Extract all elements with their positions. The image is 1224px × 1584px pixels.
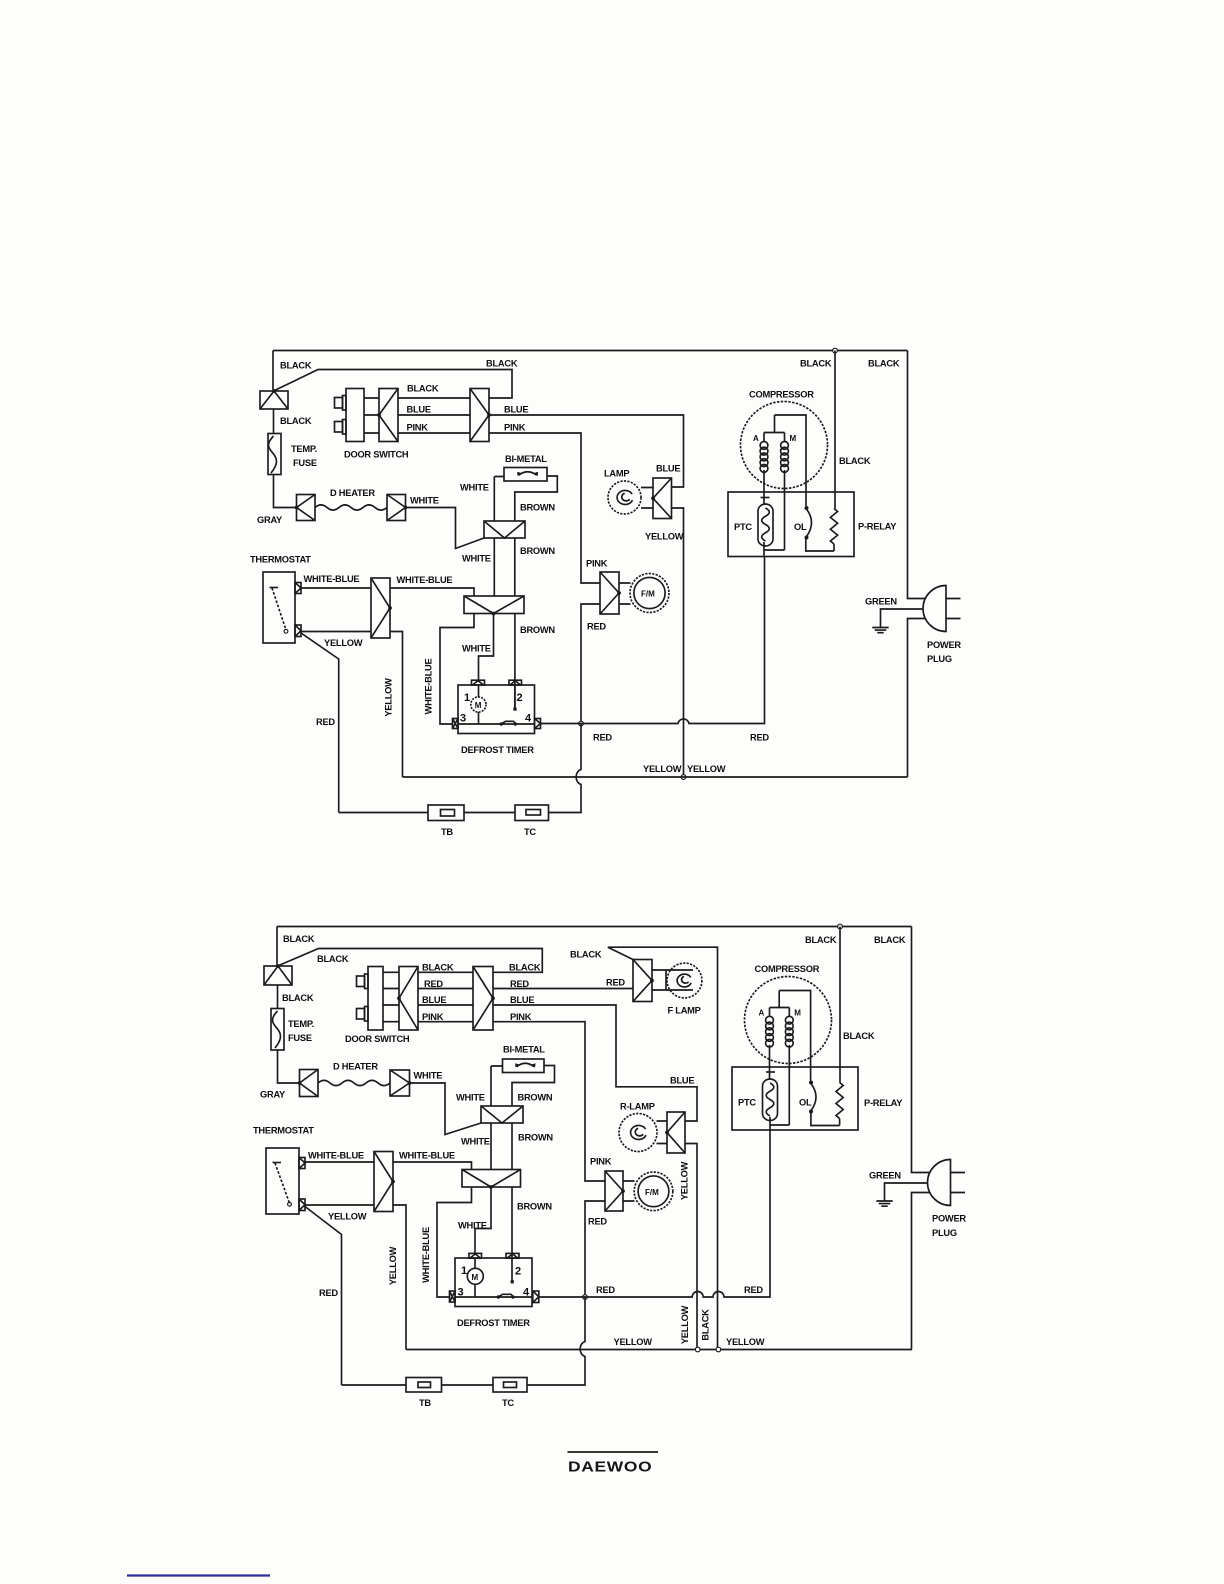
connector thermostat: [371, 578, 390, 638]
compressor C1: [741, 402, 828, 489]
svg-text:RED: RED: [319, 1288, 338, 1298]
wire BROWN bimetal right b: [512, 1066, 555, 1107]
wire BLACK loop above door switch b: [278, 949, 543, 973]
svg-text:BLUE: BLUE: [504, 405, 528, 415]
compressor M coil b: [785, 1016, 793, 1024]
svg-text:TEMP.: TEMP.: [291, 444, 317, 454]
svg-text:2: 2: [515, 1266, 521, 1278]
svg-text:PINK: PINK: [586, 559, 608, 569]
svg-text:BROWN: BROWN: [518, 1093, 553, 1103]
svg-text:THERMOSTAT: THERMOSTAT: [250, 555, 311, 565]
svg-text:RED: RED: [316, 717, 335, 727]
wire WHITE leg to pin1: [479, 614, 494, 681]
svg-text:FUSE: FUSE: [293, 458, 317, 468]
svg-text:BLACK: BLACK: [509, 963, 541, 973]
wire YELLOW thermostat: [301, 631, 371, 633]
wire WHITE-BLUE to wide2 b: [393, 1162, 472, 1170]
svg-text:BLACK: BLACK: [282, 993, 314, 1003]
svg-text:M: M: [475, 701, 482, 710]
door switch body b: [368, 967, 383, 1031]
svg-text:A: A: [753, 434, 759, 443]
door switch plunger upper b: [357, 976, 365, 987]
svg-text:WHITE-BLUE: WHITE-BLUE: [399, 1151, 455, 1161]
wire left rail b: [276, 927, 278, 967]
door switch plunger upper: [335, 398, 343, 409]
wire right rail upper b: [912, 927, 930, 1173]
blue footer line: [127, 1574, 270, 1576]
svg-text:BLACK: BLACK: [422, 963, 454, 973]
wire YELLOW row: [403, 776, 908, 778]
wire RED diagonal to TB rail: [301, 633, 339, 813]
wire RED from fm to junction: [581, 604, 600, 724]
wires wide1 to wide2 b: [491, 1123, 512, 1170]
connector door-switch right: [470, 389, 489, 442]
wire YELLOW to rail: [390, 632, 403, 778]
svg-text:BLUE: BLUE: [510, 995, 534, 1005]
PTC terminal tick b: [766, 1071, 775, 1073]
svg-text:TB: TB: [441, 827, 453, 837]
svg-text:WHITE: WHITE: [462, 644, 491, 654]
node YELLOW junction: [681, 775, 686, 780]
OL overload b: [809, 1081, 813, 1085]
svg-text:OL: OL: [799, 1098, 812, 1108]
wire A coil to PTC b: [769, 1045, 771, 1079]
wire PINK to fm connector: [489, 433, 600, 583]
node junction top rail: [833, 348, 838, 353]
PTC terminal tick: [761, 497, 770, 499]
svg-text:YELLOW: YELLOW: [687, 764, 726, 774]
svg-text:R-LAMP: R-LAMP: [620, 1102, 655, 1112]
wires wide1 to wide2: [494, 538, 515, 596]
power plug P1 b: [928, 1160, 951, 1206]
wide connector 1: [484, 521, 525, 538]
svg-text:F LAMP: F LAMP: [668, 1006, 701, 1016]
daewoo logo rule: [568, 1451, 659, 1453]
svg-text:P-RELAY: P-RELAY: [858, 522, 897, 532]
connector lamp: [653, 478, 672, 519]
compressor C1 b: [745, 977, 832, 1064]
connector d-heater right b: [390, 1070, 410, 1096]
svg-text:YELLOW: YELLOW: [645, 532, 684, 542]
d-heater element: [315, 505, 387, 510]
wire right rail upper: [908, 351, 926, 599]
svg-text:BROWN: BROWN: [517, 1202, 552, 1212]
node junction top rail b: [838, 924, 843, 929]
wire GREEN b: [885, 1183, 928, 1201]
wire BROWN leg to pin2 b: [511, 1187, 513, 1282]
ground symbol b: [876, 1201, 892, 1206]
svg-text:BLUE: BLUE: [656, 464, 680, 474]
wire fm stubs: [619, 583, 631, 604]
connector fuse-top: [260, 391, 288, 409]
wire fuse bottom b: [278, 1050, 300, 1083]
wire top rail BLACK: [273, 350, 908, 352]
svg-text:RED: RED: [750, 733, 769, 743]
svg-text:DOOR SWITCH: DOOR SWITCH: [345, 1034, 410, 1044]
wire YELLOW lamp down: [672, 508, 684, 777]
svg-text:RED: RED: [606, 978, 625, 988]
d-heater element b: [318, 1080, 390, 1085]
connector thermostat b: [374, 1152, 393, 1212]
svg-text:BROWN: BROWN: [520, 503, 555, 513]
svg-text:BLUE: BLUE: [422, 995, 446, 1005]
pin1 terminal b: [469, 1253, 482, 1258]
svg-text:COMPRESSOR: COMPRESSOR: [749, 390, 814, 400]
connector d-heater left b: [300, 1070, 319, 1097]
svg-text:WHITE-BLUE: WHITE-BLUE: [397, 575, 453, 585]
svg-text:PINK: PINK: [422, 1012, 444, 1022]
svg-text:3: 3: [460, 713, 466, 725]
pin3 terminal b: [450, 1291, 456, 1302]
node YELLOW junction 2 b: [716, 1347, 721, 1352]
svg-text:YELLOW: YELLOW: [328, 1212, 367, 1222]
wire WHITE-BLUE thermostat b: [305, 1161, 374, 1163]
svg-text:BI-METAL: BI-METAL: [505, 454, 547, 464]
wide connector 2: [464, 596, 524, 614]
wire left rail to fuse connector: [272, 351, 274, 392]
svg-text:M: M: [472, 1273, 479, 1282]
svg-text:TB: TB: [419, 1398, 431, 1408]
compressor internal bracket: [764, 415, 806, 506]
svg-text:BLACK: BLACK: [843, 1031, 875, 1041]
thermostat terminal lower: [295, 625, 301, 637]
P-relay coil b: [836, 1083, 843, 1119]
wire YELLOW to rail b: [393, 1205, 406, 1350]
pin2 internal lead b: [511, 1280, 514, 1283]
compressor A coil: [760, 442, 768, 450]
pin2 internal lead: [514, 685, 516, 709]
wire right rail lower b: [912, 1193, 930, 1350]
svg-text:COMPRESSOR: COMPRESSOR: [755, 964, 820, 974]
svg-text:WHITE-BLUE: WHITE-BLUE: [424, 659, 434, 715]
wire WHITE leg to pin1 b: [475, 1187, 491, 1254]
power plug P1: [923, 586, 946, 632]
svg-text:4: 4: [525, 713, 532, 725]
wire right rail lower: [908, 619, 926, 778]
wire PINK to fm b: [493, 1022, 605, 1181]
svg-text:YELLOW: YELLOW: [388, 1246, 398, 1285]
wire WHITE bimetal left: [494, 477, 504, 522]
wire fuse top lead b: [277, 985, 279, 1009]
wire YELLOW row b: [406, 1349, 912, 1351]
svg-text:POWER: POWER: [927, 640, 961, 650]
svg-text:GREEN: GREEN: [869, 1171, 901, 1181]
svg-text:RED: RED: [596, 1285, 615, 1295]
P-relay coil: [830, 509, 837, 545]
wire BROWN bimetal right: [515, 476, 558, 521]
relay box b: [732, 1067, 858, 1130]
wires f-lamp stubs: [652, 970, 666, 990]
svg-text:PLUG: PLUG: [932, 1228, 957, 1238]
fan motor FM b: [634, 1172, 673, 1211]
svg-text:PINK: PINK: [504, 423, 526, 433]
thermostat TH1 b: [266, 1148, 299, 1214]
svg-text:1: 1: [461, 1265, 467, 1277]
connector fm: [600, 572, 619, 614]
timer motor M b: [467, 1268, 483, 1284]
wires r-lamp stubs: [657, 1121, 668, 1144]
svg-text:TC: TC: [524, 827, 536, 837]
svg-text:WHITE-BLUE: WHITE-BLUE: [421, 1227, 431, 1283]
svg-text:LAMP: LAMP: [604, 469, 629, 479]
wire fm stubs b: [623, 1181, 635, 1201]
svg-text:BROWN: BROWN: [520, 546, 555, 556]
svg-text:1: 1: [464, 692, 470, 704]
connector door-switch left b: [399, 967, 418, 1031]
svg-text:P-RELAY: P-RELAY: [864, 1098, 903, 1108]
svg-text:M: M: [790, 434, 797, 443]
wires door body to connector b: [383, 972, 399, 1021]
wire top rail BLACK b: [277, 926, 912, 928]
svg-text:GRAY: GRAY: [257, 515, 283, 525]
svg-text:THERMOSTAT: THERMOSTAT: [253, 1126, 314, 1136]
svg-text:WHITE: WHITE: [456, 1093, 485, 1103]
svg-text:YELLOW: YELLOW: [614, 1337, 653, 1347]
svg-text:BROWN: BROWN: [518, 1133, 553, 1143]
svg-text:BLACK: BLACK: [805, 935, 837, 945]
svg-text:RED: RED: [587, 622, 606, 632]
thermostat terminal lower b: [299, 1199, 305, 1211]
node RED junction: [579, 721, 584, 726]
pin3 terminal: [453, 719, 459, 729]
door switch body: [346, 389, 364, 442]
PTC element: [758, 504, 773, 546]
svg-text:A: A: [759, 1009, 765, 1018]
temp fuse F1: [268, 434, 281, 475]
svg-text:BLACK: BLACK: [874, 935, 906, 945]
svg-text:YELLOW: YELLOW: [680, 1161, 690, 1200]
svg-text:BLACK: BLACK: [317, 954, 349, 964]
wire YELLOW thermostat b: [305, 1204, 374, 1206]
thermostat TH1: [263, 572, 295, 643]
wire BROWN leg to pin2: [514, 614, 516, 710]
svg-text:RED: RED: [424, 979, 443, 989]
wires BLACK BLUE PINK between connectors: [398, 398, 470, 433]
svg-text:D HEATER: D HEATER: [333, 1062, 378, 1072]
svg-text:YELLOW: YELLOW: [680, 1305, 690, 1344]
svg-text:TC: TC: [502, 1398, 514, 1408]
svg-text:F/M: F/M: [641, 590, 655, 599]
wire BLACK relay feed b: [839, 927, 841, 1083]
wire BLACK diagonal to door switch: [274, 370, 513, 399]
svg-text:WHITE: WHITE: [458, 1221, 487, 1231]
connector d-heater left: [297, 495, 316, 521]
svg-text:WHITE: WHITE: [461, 1137, 490, 1147]
bi-metal B1 b: [503, 1059, 545, 1073]
svg-text:WHITE-BLUE: WHITE-BLUE: [304, 574, 360, 584]
lamp L1: [608, 481, 641, 514]
temp fuse F1 b: [271, 1009, 284, 1051]
timer internal contact line b: [455, 1296, 532, 1298]
wire BLUE to lamp connector: [489, 415, 684, 487]
node RED junction b: [583, 1295, 588, 1300]
pin2 terminal b: [506, 1253, 519, 1258]
wire GREEN: [881, 609, 924, 627]
svg-text:PLUG: PLUG: [927, 654, 952, 664]
wire BLACK relay feed: [834, 351, 836, 509]
wide connector 2 b: [462, 1170, 521, 1188]
wires BLACK RED BLUE PINK b: [418, 972, 473, 1021]
svg-text:YELLOW: YELLOW: [643, 764, 682, 774]
wire M coil down b: [788, 1045, 790, 1125]
timer internal contact line: [458, 723, 535, 725]
wire WHITE-BLUE thermostat: [301, 587, 371, 589]
svg-text:D HEATER: D HEATER: [330, 488, 375, 498]
defrost timer DT1 b: [455, 1258, 532, 1307]
svg-text:DAEWOO: DAEWOO: [568, 1459, 652, 1476]
wire A coil to PTC: [763, 470, 765, 504]
svg-text:PTC: PTC: [734, 522, 752, 532]
terminal TC b: [493, 1378, 527, 1393]
door switch plunger lower: [335, 422, 343, 433]
svg-text:BLACK: BLACK: [283, 934, 315, 944]
svg-text:BLUE: BLUE: [670, 1076, 694, 1086]
wire YELLOW r-lamp down: [685, 1144, 697, 1350]
svg-text:BLACK: BLACK: [800, 359, 832, 369]
wire RED diagonal to TB rail b: [305, 1207, 342, 1386]
wire fuse top lead: [273, 409, 275, 434]
svg-text:PINK: PINK: [407, 423, 429, 433]
connector door-switch left: [379, 389, 398, 442]
compressor M coil: [781, 442, 789, 450]
svg-text:PINK: PINK: [510, 1012, 532, 1022]
compressor internal bracket b: [770, 991, 811, 1081]
svg-text:DEFROST TIMER: DEFROST TIMER: [461, 745, 534, 755]
wire TB TC row: [339, 812, 515, 814]
f-lamp L2: [666, 970, 693, 990]
wire RED vertical hop to TB row b: [527, 1297, 585, 1385]
connector fuse-top b: [264, 966, 292, 985]
compressor A coil b: [766, 1016, 774, 1024]
connector door-switch right b: [473, 967, 493, 1031]
svg-text:WHITE: WHITE: [460, 483, 489, 493]
r-lamp L3: [619, 1114, 657, 1152]
svg-text:BLACK: BLACK: [570, 950, 602, 960]
bi-metal B1: [504, 468, 547, 482]
svg-text:BI-METAL: BI-METAL: [503, 1045, 545, 1055]
svg-text:PTC: PTC: [738, 1098, 756, 1108]
door switch plunger lower b: [357, 1009, 365, 1020]
svg-text:BLACK: BLACK: [407, 384, 439, 394]
wire WHITE-BLUE leg to pin3: [440, 614, 474, 725]
svg-text:RED: RED: [588, 1217, 607, 1227]
wire BLUE to r-lamp: [493, 1005, 697, 1121]
wire WHITE to wide connector b: [410, 1083, 482, 1135]
pin4 terminal b: [533, 1291, 539, 1303]
svg-text:M: M: [794, 1009, 801, 1018]
svg-text:BLACK: BLACK: [280, 416, 312, 426]
svg-text:F/M: F/M: [645, 1188, 659, 1197]
wire M coil down: [784, 470, 786, 550]
svg-text:WHITE: WHITE: [414, 1071, 443, 1081]
svg-text:GRAY: GRAY: [260, 1090, 286, 1100]
svg-text:POWER: POWER: [932, 1214, 966, 1224]
svg-text:WHITE: WHITE: [462, 554, 491, 564]
PTC element b: [763, 1079, 778, 1121]
wire fuse bottom to gray connector: [274, 475, 297, 508]
wire BLACK f-lamp loop: [608, 947, 718, 1349]
svg-text:WHITE: WHITE: [410, 496, 439, 506]
svg-text:WHITE-BLUE: WHITE-BLUE: [308, 1151, 364, 1161]
thermostat terminal upper b: [299, 1158, 305, 1169]
timer motor M: [471, 697, 486, 712]
svg-text:FUSE: FUSE: [288, 1033, 312, 1043]
connector f-lamp: [633, 960, 652, 1002]
svg-text:BLACK: BLACK: [839, 456, 871, 466]
wire WHITE to wide connector: [406, 508, 485, 549]
svg-text:BROWN: BROWN: [520, 625, 555, 635]
wire RED to f-lamp connector: [493, 988, 633, 990]
svg-text:TEMP.: TEMP.: [288, 1019, 314, 1029]
wire RED row with hops b: [539, 1130, 770, 1297]
wires lamp stubs: [641, 488, 653, 509]
connector fm b: [605, 1171, 623, 1211]
wire WHITE-BLUE to wide connector 2: [390, 588, 474, 596]
svg-text:RED: RED: [744, 1285, 763, 1295]
wide connector 1 b: [481, 1106, 523, 1123]
svg-text:DEFROST TIMER: DEFROST TIMER: [457, 1318, 530, 1328]
wire WHITE bimetal left b: [491, 1066, 503, 1106]
fan motor FM: [630, 574, 669, 613]
pin2 terminal: [509, 680, 522, 685]
svg-text:YELLOW: YELLOW: [384, 678, 394, 717]
connector d-heater right: [387, 495, 406, 521]
svg-text:RED: RED: [510, 979, 529, 989]
wire WHITE-BLUE leg to pin3 b: [437, 1187, 472, 1297]
svg-text:RED: RED: [593, 733, 612, 743]
svg-text:PINK: PINK: [590, 1157, 612, 1167]
svg-text:BLUE: BLUE: [407, 405, 431, 415]
terminal TB b: [406, 1378, 442, 1393]
svg-text:OL: OL: [794, 522, 807, 532]
svg-text:BLACK: BLACK: [280, 361, 312, 371]
svg-text:YELLOW: YELLOW: [324, 638, 363, 648]
defrost timer DT1: [458, 685, 535, 734]
relay box: [728, 492, 854, 557]
pin1 terminal: [472, 680, 485, 685]
thermostat terminal upper: [295, 583, 301, 594]
terminal TB: [428, 805, 464, 821]
svg-text:DOOR SWITCH: DOOR SWITCH: [344, 450, 409, 460]
OL overload: [805, 506, 809, 510]
svg-text:BLACK: BLACK: [868, 359, 900, 369]
pin4 terminal: [535, 719, 541, 729]
ground symbol: [872, 628, 888, 633]
svg-text:BLACK: BLACK: [701, 1309, 711, 1341]
svg-text:2: 2: [517, 692, 523, 704]
svg-text:GREEN: GREEN: [865, 597, 897, 607]
svg-text:YELLOW: YELLOW: [726, 1337, 765, 1347]
node YELLOW junction 1 b: [695, 1347, 700, 1352]
terminal TC: [515, 805, 549, 821]
svg-text:BLACK: BLACK: [486, 359, 518, 369]
connector r-lamp: [667, 1112, 685, 1153]
wire RED from fm to junction b: [585, 1201, 605, 1297]
wire TB TC row b: [342, 1384, 494, 1386]
wire RED vertical hop to TB row: [549, 724, 582, 813]
wire RED row with hop: [541, 557, 765, 724]
wires door body to connector: [364, 398, 379, 433]
